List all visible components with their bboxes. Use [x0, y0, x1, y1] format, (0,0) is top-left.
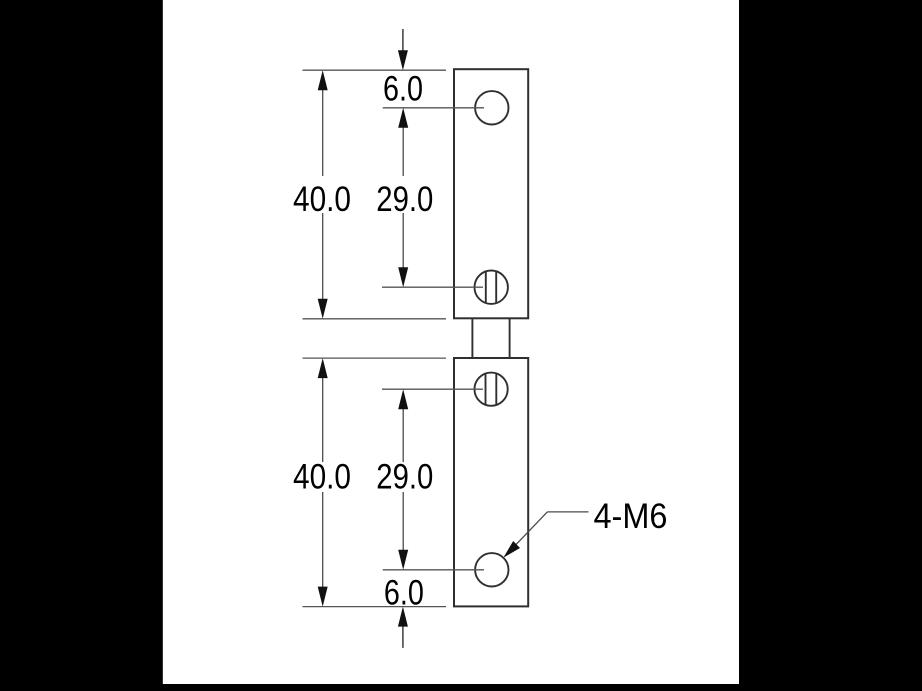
dimension 6.0 bottom outside arrow [398, 607, 408, 648]
hole H4 (plain, bottom of lower block) [475, 553, 508, 586]
hole H3 (slotted, top of lower block) [475, 373, 508, 406]
svg-text:6.0: 6.0 [384, 573, 424, 612]
extension line bottom edge [303, 606, 447, 608]
extension line top edge [303, 69, 447, 71]
dimension 29.0 upper (line + arrows) [398, 108, 408, 287]
svg-text:29.0: 29.0 [376, 457, 433, 496]
dimension 29.0 lower (line + arrows) [398, 389, 408, 570]
label 6.0 top [383, 70, 423, 109]
extension line lower block top [303, 357, 447, 359]
neck left wire [471, 318, 473, 358]
extension line hole H2 center [382, 286, 483, 288]
label 29.0 upper [376, 180, 433, 219]
label 40.0 lower [293, 457, 351, 496]
svg-text:6.0: 6.0 [383, 70, 423, 109]
extension line hole H3 center [382, 388, 483, 390]
label 40.0 upper [293, 180, 351, 219]
extension line hole H4 center [383, 569, 484, 571]
dimension 40.0 lower (line + arrows) [318, 358, 328, 606]
label 4-M6 [594, 497, 668, 536]
hole H1 (plain, top of upper block) [475, 91, 508, 124]
dimension 6.0 top outside arrow [398, 29, 408, 70]
lower block outline [454, 358, 528, 606]
label 6.0 bottom [384, 573, 424, 612]
upper block outline [454, 69, 528, 318]
extension line hole H1 center [383, 107, 484, 109]
label 29.0 lower [376, 457, 433, 496]
neck right wire [509, 318, 511, 358]
svg-text:4-M6: 4-M6 [594, 497, 668, 536]
svg-text:40.0: 40.0 [293, 180, 351, 219]
leader 4-M6 (line + arrow) [503, 512, 588, 558]
dimension 40.0 upper (line + arrows) [318, 70, 328, 319]
extension line upper block bottom [303, 318, 447, 320]
svg-text:40.0: 40.0 [293, 457, 351, 496]
hole H2 (slotted, bottom of upper block) [475, 271, 508, 304]
drawing page (white sheet) [163, 0, 739, 684]
svg-text:29.0: 29.0 [376, 180, 433, 219]
